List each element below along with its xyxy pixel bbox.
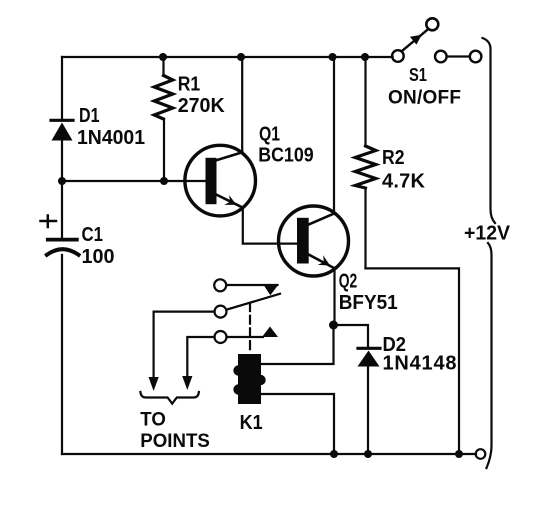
svg-text:BFY51: BFY51 (339, 292, 398, 314)
svg-text:4.7K: 4.7K (382, 171, 426, 193)
wire bottom rail (62, 453, 476, 455)
wire to points right (from terminal 3) (187, 337, 214, 378)
wire D2 bottom (367, 367, 369, 455)
node R2 path bottom (458,454) (455, 450, 463, 458)
node D2 bottom (368,454) (364, 450, 372, 458)
dashed actuation link (249, 303, 251, 353)
relay contact bottom line (227, 336, 264, 338)
C1 plus sign (41, 216, 57, 228)
wire node to D2 top (334, 325, 369, 347)
svg-text:Q2: Q2 (339, 271, 358, 293)
svg-text:Q1: Q1 (259, 124, 280, 146)
svg-text:R2: R2 (382, 147, 405, 169)
diode D1 (51, 120, 73, 140)
node Q2 collector top (332,57) (329, 53, 337, 61)
transistor Q1 (185, 145, 256, 216)
node Q2 emitter (333,325) (329, 321, 338, 330)
wire left rail upper (61, 57, 63, 119)
node coil wire bottom (334,454) (330, 450, 338, 458)
wire top rail (62, 56, 393, 58)
resistor R2 (355, 57, 376, 268)
wire node to relay coil top terminal (262, 325, 334, 364)
svg-text:S1: S1 (409, 64, 427, 85)
terminal circle bottom right (476, 449, 486, 459)
arrow to points left (149, 377, 159, 391)
node R1 top (163,57) (159, 53, 167, 61)
diode D2 (358, 348, 381, 366)
svg-text:TO: TO (140, 409, 166, 430)
svg-text:+12V: +12V (464, 223, 511, 245)
brace under arrows (140, 392, 199, 404)
relay contact top line (227, 284, 278, 286)
wire junction line y=181 (62, 180, 206, 182)
transistor Q2 (279, 206, 349, 276)
wire Q2 collector (333, 57, 335, 214)
switch S1 (392, 18, 481, 62)
relay contact terminal 3 (215, 331, 227, 343)
svg-text:1N4148: 1N4148 (383, 353, 457, 375)
wire Q1 emitter to Q2 base (243, 208, 297, 244)
+12V supply rail (483, 38, 496, 468)
node A (62,181) (58, 177, 66, 185)
wire Q1 collector (241, 57, 243, 153)
relay arm (226, 294, 280, 310)
wire coil bottom to rail (261, 394, 334, 454)
node R2 top (365,57) (361, 53, 369, 61)
svg-text:ON/OFF: ON/OFF (388, 88, 461, 109)
wire left rail mid (61, 141, 63, 239)
svg-text:K1: K1 (240, 412, 263, 434)
wire to points left (from common) (154, 312, 215, 379)
relay contact top arrowhead (263, 284, 279, 295)
relay coil K1 (233, 354, 265, 404)
relay contact terminal 2 (common) (215, 306, 227, 318)
svg-text:100: 100 (82, 246, 115, 268)
svg-text:POINTS: POINTS (140, 431, 210, 452)
node Q1 collector top (242,57) (237, 53, 245, 61)
svg-text:C1: C1 (82, 224, 104, 246)
arrow to points right (182, 376, 192, 390)
capacitor C1 (47, 240, 79, 255)
wire left rail lower (61, 255, 63, 454)
svg-text:1N4001: 1N4001 (77, 127, 145, 149)
svg-text:270K: 270K (178, 95, 226, 117)
resistor R1 (154, 57, 173, 181)
svg-text:R1: R1 (178, 74, 201, 96)
relay contact bottom triangle (262, 327, 278, 338)
svg-text:D1: D1 (79, 105, 100, 127)
svg-text:BC109: BC109 (258, 145, 314, 167)
relay contact terminal 1 (214, 279, 226, 291)
wire R2 bottom to right (366, 268, 460, 454)
node B (164,181) (160, 177, 168, 185)
wire Q2 emitter (333, 268, 335, 325)
